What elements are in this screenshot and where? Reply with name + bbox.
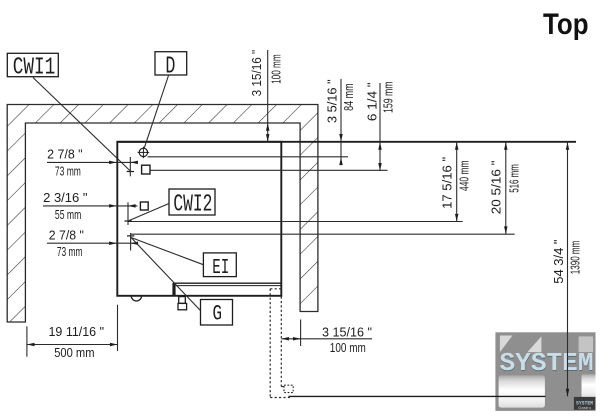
appliance top extension line xyxy=(117,141,576,143)
svg-text:55 mm: 55 mm xyxy=(55,207,81,222)
label box CWI2 xyxy=(169,189,215,219)
svg-text:CWI2: CWI2 xyxy=(173,192,212,219)
appliance bottom band line 1 xyxy=(173,282,281,284)
appliance band left cap xyxy=(172,283,175,296)
dimension 3 5/16 84mm xyxy=(325,79,357,165)
svg-text:17 5/16 ": 17 5/16 " xyxy=(440,157,455,209)
connection line D xyxy=(148,156,348,158)
watermark logo SYSTEM xyxy=(495,332,595,411)
dimension 2 7/8 73mm lower xyxy=(47,227,138,258)
svg-text:159 mm: 159 mm xyxy=(381,81,396,113)
svg-text:73 mm: 73 mm xyxy=(57,244,83,259)
dashed conduit elbow connector xyxy=(281,386,284,388)
dashed conduit bottom xyxy=(270,397,290,399)
dimension 20 5/16 516mm xyxy=(489,142,522,234)
dimension 2 3/16 55mm xyxy=(43,190,138,222)
svg-text:516 mm: 516 mm xyxy=(507,164,522,193)
watermark dark box xyxy=(574,397,596,410)
svg-text:100 mm: 100 mm xyxy=(269,54,284,84)
label box G xyxy=(201,300,233,327)
position cross CWI2 xyxy=(124,202,131,225)
position cross CWI1 xyxy=(127,157,134,176)
svg-text:100 mm: 100 mm xyxy=(330,340,366,355)
dashed conduit vertical left xyxy=(269,289,271,398)
svg-text:3 15/16 ": 3 15/16 " xyxy=(249,50,264,97)
connection line CWI1 xyxy=(150,169,387,171)
dimension 54 3/4 1390mm xyxy=(551,142,583,397)
appliance bottom band line 2 xyxy=(176,285,281,287)
label box D xyxy=(155,52,187,81)
leader CWI2 xyxy=(128,204,169,222)
dimension 3 15/16 100mm bottom xyxy=(281,320,372,355)
position cross EI xyxy=(127,233,134,251)
dashed conduit vertical right xyxy=(280,297,282,387)
svg-text:Top: Top xyxy=(543,8,589,41)
svg-text:2 7/8 ": 2 7/8 " xyxy=(49,227,84,242)
svg-text:20 5/16 ": 20 5/16 " xyxy=(489,161,504,215)
label box EI xyxy=(203,253,236,280)
svg-text:54 3/4 ": 54 3/4 " xyxy=(551,240,566,284)
connection line EI xyxy=(131,233,515,235)
dimension 6 1/4 159mm xyxy=(365,81,396,171)
appliance foot bump xyxy=(131,296,141,301)
svg-text:G: G xyxy=(213,300,223,326)
svg-text:2 3/16 ": 2 3/16 " xyxy=(43,190,87,205)
wall (hatched L-shape with right leg) xyxy=(7,105,318,323)
appliance outline xyxy=(117,142,281,296)
dimension 2 7/8 73mm upper xyxy=(47,146,138,178)
leader G xyxy=(131,238,200,311)
svg-text:3 5/16 ": 3 5/16 " xyxy=(325,79,340,123)
svg-text:73 mm: 73 mm xyxy=(55,164,81,179)
svg-text:CWI1: CWI1 xyxy=(13,54,56,81)
dimension 19 11/16 500mm xyxy=(27,305,118,361)
leader D xyxy=(144,76,169,149)
connection line CWI2 xyxy=(128,221,463,223)
bottom level line xyxy=(289,395,546,397)
svg-text:500 mm: 500 mm xyxy=(54,345,94,360)
gas plug G upper xyxy=(179,297,186,304)
svg-text:D: D xyxy=(165,53,175,80)
leader EI xyxy=(131,238,203,265)
svg-text:6 1/4 ": 6 1/4 " xyxy=(365,82,380,121)
svg-text:1390 mm: 1390 mm xyxy=(568,241,583,275)
svg-text:19 11/16 ": 19 11/16 " xyxy=(49,324,105,339)
svg-text:SYSTEM: SYSTEM xyxy=(500,348,594,378)
leader CWI1 xyxy=(33,78,130,172)
dimension 3 15/16 100mm top xyxy=(249,50,284,142)
connection symbol CWI1 (square) xyxy=(142,165,150,174)
dashed conduit top connector xyxy=(270,288,281,290)
connection symbol CWI2 (square) xyxy=(140,202,148,210)
svg-text:EI: EI xyxy=(212,256,229,280)
svg-text:Gastro: Gastro xyxy=(578,406,591,410)
svg-text:440 mm: 440 mm xyxy=(457,161,472,192)
svg-text:2 7/8 ": 2 7/8 " xyxy=(47,146,83,161)
svg-text:84 mm: 84 mm xyxy=(341,83,356,111)
label box CWI1 xyxy=(7,53,58,81)
connection symbol D (circle with crosshair) xyxy=(138,147,150,159)
gas plug G lower xyxy=(178,303,187,309)
dashed outlet box xyxy=(284,385,293,392)
svg-text:3 15/16 ": 3 15/16 " xyxy=(322,324,372,339)
dimension 17 5/16 440mm xyxy=(440,142,472,222)
